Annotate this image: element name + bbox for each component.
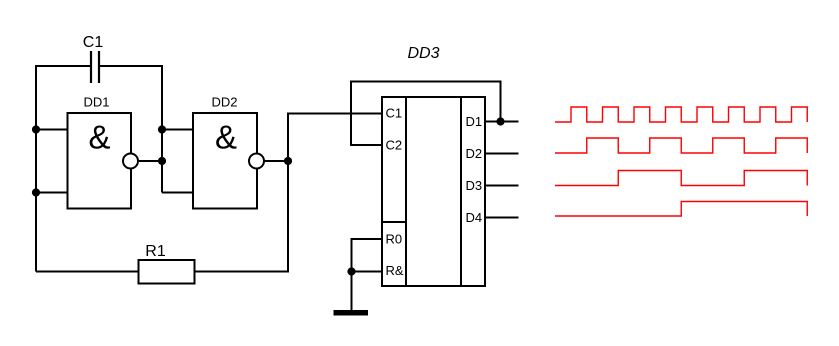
wire DD2 output to node xyxy=(264,160,289,162)
junction dot node C1 feedback xyxy=(158,125,166,133)
wire DD3 C2 pin xyxy=(350,144,382,146)
wire DD1 output to node xyxy=(138,160,163,162)
wire R0 to ground riser xyxy=(351,238,353,310)
wire DD3 D1 output xyxy=(485,121,519,123)
waveform D2 xyxy=(555,138,807,153)
gate DD2 xyxy=(193,113,257,209)
wire R1 to DD2 output node xyxy=(195,271,290,273)
svg-text:R&: R& xyxy=(386,263,404,278)
wire left vertical bus xyxy=(35,65,37,272)
wire DD3 D2 output xyxy=(485,153,519,155)
svg-text:D3: D3 xyxy=(466,178,483,193)
svg-text:&: & xyxy=(88,118,110,155)
junction dot D1 output xyxy=(496,117,504,125)
wire DD3 D4 output xyxy=(485,217,519,219)
svg-text:C1: C1 xyxy=(386,106,403,121)
waveform D3 xyxy=(555,171,807,186)
wire DD3 R& pin xyxy=(351,271,383,273)
wire node up to DD3 C1 level xyxy=(287,114,289,163)
wire DD1 input lower xyxy=(36,192,68,194)
wire to DD3 C1 pin xyxy=(287,113,382,115)
junction dot reset node xyxy=(347,267,355,275)
resistor R1 xyxy=(139,260,195,284)
ground xyxy=(334,310,369,316)
wire DD3 R0 pin xyxy=(351,238,383,240)
capacitor C1 xyxy=(91,51,99,83)
svg-text:DD3: DD3 xyxy=(407,45,439,62)
svg-text:DD1: DD1 xyxy=(83,95,109,110)
svg-text:R1: R1 xyxy=(145,243,166,260)
svg-text:D1: D1 xyxy=(466,114,483,129)
counter DD3 xyxy=(382,97,485,286)
wire feedback top D1 to C2 xyxy=(350,81,502,83)
svg-text:D2: D2 xyxy=(466,146,483,161)
junction dot left bus upper xyxy=(32,125,40,133)
svg-text:R0: R0 xyxy=(386,232,403,247)
wire DD3 D3 output xyxy=(485,185,519,187)
wire DD1 input upper xyxy=(36,129,68,131)
svg-text:&: & xyxy=(215,118,237,155)
wire DD2 input upper xyxy=(162,129,193,131)
svg-text:C1: C1 xyxy=(83,34,104,51)
wire drop to D1 output xyxy=(500,82,502,122)
junction dot left bus lower xyxy=(32,188,40,196)
wire node down to R1 level xyxy=(287,161,289,273)
svg-text:C2: C2 xyxy=(386,138,403,153)
wire from C1 right plate to node above DD2 xyxy=(100,65,163,67)
wire bottom left bus to R1 xyxy=(36,271,139,273)
gate DD1 xyxy=(68,113,132,209)
wire DD2 input lower xyxy=(162,192,193,194)
wire vertical between gates xyxy=(161,65,163,193)
DD1 output bubble xyxy=(123,154,138,169)
junction dot node DD1 output xyxy=(158,157,166,165)
svg-text:D4: D4 xyxy=(466,210,483,225)
wire top from left bus to C1 left plate xyxy=(35,65,90,67)
waveform D1 xyxy=(555,107,807,122)
junction dot node DD2 output xyxy=(284,157,292,165)
waveform D4 xyxy=(555,202,807,217)
wire C2 riser xyxy=(350,82,352,147)
svg-text:DD2: DD2 xyxy=(211,95,237,110)
DD2 output bubble xyxy=(249,154,264,169)
